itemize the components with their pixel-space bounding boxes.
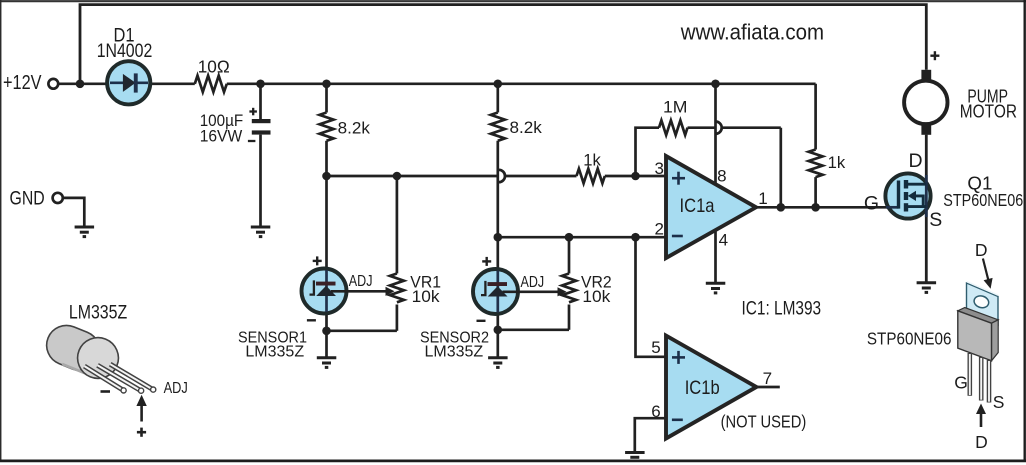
node: pin8 supply on rail	[711, 80, 720, 89]
svg-text:G: G	[864, 193, 879, 215]
node: capacitor junction	[256, 80, 265, 89]
node: sensor1 bottom	[322, 327, 331, 336]
node: output/1M	[777, 203, 786, 212]
svg-text:ADJ: ADJ	[164, 380, 188, 397]
ground (IC1b pin 6)	[625, 453, 645, 458]
svg-text:STP60NE06: STP60NE06	[867, 329, 952, 349]
svg-text:8.2k: 8.2k	[510, 118, 543, 137]
ground (sensor2)	[488, 358, 508, 368]
op-amp IC1b (not used)	[666, 336, 756, 439]
svg-text:+12V: +12V	[3, 72, 42, 94]
svg-text:MOTOR: MOTOR	[960, 101, 1017, 122]
svg-text:G: G	[954, 373, 968, 393]
wire: IC1b pin5 tie from pin2 node	[636, 237, 667, 357]
resistor 1M	[659, 120, 688, 135]
wire: 1M to output node with hop	[688, 126, 716, 129]
wire: IC1b output pin7 stub	[756, 386, 779, 389]
wire: row pin3 from node A to 1k	[327, 175, 499, 178]
terminal GND	[10, 188, 85, 227]
tab	[967, 283, 999, 325]
svg-text:STP60NE06: STP60NE06	[943, 190, 1023, 210]
resistor 1k pull-up	[809, 84, 846, 208]
svg-text:www.afiata.com: www.afiata.com	[680, 20, 824, 45]
svg-text:IC1b: IC1b	[685, 377, 720, 399]
node: pin2/pin5 tie	[631, 233, 640, 242]
ground (sensor1)	[317, 358, 337, 368]
svg-text:D: D	[975, 240, 988, 260]
svg-text:7: 7	[763, 369, 772, 388]
terminal +12V	[48, 79, 58, 89]
svg-text:D: D	[908, 150, 922, 172]
ground (IC1a pin 4)	[706, 283, 726, 293]
svg-text:D: D	[975, 432, 988, 452]
svg-text:6: 6	[651, 402, 660, 421]
svg-text:10k: 10k	[412, 288, 441, 306]
node: 8.2k no.2 top	[494, 80, 503, 89]
transistor Q1 STP60NE06	[885, 135, 930, 283]
wire: output row pin1 to gate	[756, 206, 899, 209]
svg-text:1k: 1k	[583, 150, 601, 169]
svg-text:ADJ: ADJ	[349, 273, 373, 290]
node: +12V/top-rail junction	[76, 80, 85, 89]
node: VR2 top	[565, 233, 574, 242]
ground (source)	[917, 283, 937, 293]
STP60NE06 package drawing (TO-220)	[867, 240, 1005, 452]
node: output/1k pullup	[811, 203, 820, 212]
svg-text:4: 4	[719, 230, 728, 249]
svg-text:1M: 1M	[663, 98, 688, 117]
arrow to D lead	[980, 413, 983, 428]
motor M1 pump	[904, 51, 947, 135]
leads	[84, 364, 155, 393]
arrow to + lead	[140, 405, 143, 422]
node: 8.2k no.1 top	[322, 80, 331, 89]
node: sensor2 bottom	[494, 326, 503, 335]
node: row1/sensor1	[322, 172, 331, 181]
wire: 1k to pin 3	[605, 175, 666, 178]
label minus (pkg)	[101, 390, 111, 393]
wire: pin 4 to ground	[714, 228, 717, 283]
svg-text:1N4002: 1N4002	[97, 40, 153, 62]
svg-text:1: 1	[758, 189, 767, 208]
resistor 8.2k no.1	[320, 84, 371, 176]
wire: top rail riser and top rail to pump motor	[80, 5, 926, 84]
arrow from D to tab	[983, 259, 989, 281]
svg-text:LM335Z: LM335Z	[245, 343, 304, 360]
svg-text:1k: 1k	[828, 153, 846, 172]
op-amp IC1a	[666, 156, 756, 258]
wire: row pin2	[498, 236, 666, 239]
diode D1 1N4002	[97, 25, 153, 105]
wire hop over 8.2k no.2 branch	[499, 170, 505, 182]
svg-text:2: 2	[654, 220, 663, 239]
sensor1 LM335Z	[302, 256, 395, 320]
svg-text:LM335Z: LM335Z	[69, 301, 127, 323]
wire: 1M feedback loop	[636, 128, 660, 176]
wire: +12V main rail	[58, 82, 195, 85]
svg-text:10k: 10k	[582, 288, 611, 306]
ground (capacitor)	[251, 227, 270, 237]
svg-text:5: 5	[651, 338, 660, 357]
svg-text:10Ω: 10Ω	[198, 57, 230, 77]
svg-text:16VW: 16VW	[200, 127, 243, 146]
svg-text:8: 8	[717, 167, 726, 186]
capacitor 100uF 16VW	[200, 84, 271, 227]
svg-text:GND: GND	[10, 188, 45, 210]
svg-text:S: S	[993, 392, 1005, 412]
potentiometer VR2 10k	[498, 237, 612, 330]
node: row2/sensor2	[494, 233, 503, 242]
resistor 1k series	[577, 150, 605, 183]
svg-text:ADJ: ADJ	[521, 274, 545, 291]
leads	[970, 353, 989, 403]
svg-text:(NOT USED): (NOT USED)	[721, 412, 807, 432]
wire: sensor1 bottom to ground	[325, 331, 328, 358]
wire hop over pin8 supply	[716, 122, 722, 134]
resistor 8.2k no.2	[491, 84, 542, 237]
svg-text:LM335Z: LM335Z	[425, 343, 484, 360]
svg-text:IC1a: IC1a	[680, 195, 715, 217]
wire: IC1b pin6 to ground	[635, 418, 666, 452]
wire: sensor1 branch vertical	[325, 176, 328, 331]
body	[958, 308, 998, 324]
wire: pin 8 supply drop	[714, 84, 717, 186]
wire: sensor2 bottom to ground	[496, 330, 499, 358]
svg-text:IC1: LM393: IC1: LM393	[742, 297, 822, 319]
ground (GND terminal)	[75, 227, 95, 237]
svg-text:S: S	[929, 209, 942, 231]
sensor2 LM335Z	[473, 257, 567, 321]
svg-text:3: 3	[654, 159, 663, 178]
node: VR1 top	[393, 172, 402, 181]
potentiometer VR1 10k	[327, 176, 442, 331]
LM335Z package drawing (TO-92)	[40, 301, 187, 436]
label plus (pkg)	[137, 431, 146, 434]
svg-text:8.2k: 8.2k	[338, 119, 371, 138]
node: 1M tap on pin3	[631, 172, 640, 181]
wire: sensor2 branch vertical	[496, 237, 499, 330]
resistor 10ohm	[195, 57, 230, 92]
